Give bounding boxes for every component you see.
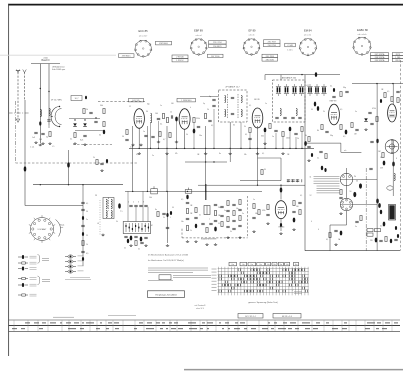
rotary switch contacts xyxy=(50,228,52,230)
matrix header boxes xyxy=(229,262,237,265)
svg-text:k: k xyxy=(190,107,191,109)
svg-text:C 348: C 348 xyxy=(287,45,293,47)
vertical x68 xyxy=(68,150,70,185)
table label box A xyxy=(238,314,263,319)
svg-text:30: 30 xyxy=(264,169,266,171)
parts table row 1 entries xyxy=(25,322,30,324)
page bottom scan edge xyxy=(184,369,403,371)
pentode V4 envelope xyxy=(329,104,340,125)
svg-text:T 5: T 5 xyxy=(120,211,122,213)
svg-text:gemess. Spannung (Siehe Text): gemess. Spannung (Siehe Text) xyxy=(248,301,278,304)
blob R40 xyxy=(118,203,121,208)
svg-text:30: 30 xyxy=(233,125,235,127)
svg-text:1nF: 1nF xyxy=(32,137,35,139)
tuner rail wire xyxy=(24,100,26,206)
svg-text:ZWI 8000: ZWI 8000 xyxy=(159,43,169,45)
svg-text:0,5: 0,5 xyxy=(340,109,342,111)
svg-text:2n: 2n xyxy=(152,155,154,157)
svg-text:Ua: Ua xyxy=(232,264,234,266)
svg-text:0,1: 0,1 xyxy=(86,203,88,205)
mechanical dotted link xyxy=(99,200,101,235)
power vertical wires xyxy=(376,84,378,251)
svg-text:1 24 C: 1 24 C xyxy=(287,49,293,51)
svg-text:296 8870: 296 8870 xyxy=(213,46,222,48)
IF filter coil Lb xyxy=(241,95,242,102)
power wires v xyxy=(346,186,348,199)
socket V1 pin label box left xyxy=(119,54,135,58)
x347 parts xyxy=(345,90,348,92)
rail coil L2b xyxy=(49,108,50,115)
parts table column ticks xyxy=(13,320,15,332)
svg-text:240Ω: 240Ω xyxy=(43,58,48,60)
svg-text:1n: 1n xyxy=(265,103,267,105)
cap C7 xyxy=(83,134,86,136)
matrix grid xyxy=(218,267,309,269)
tone parts col2 xyxy=(232,203,235,205)
cap C28 xyxy=(325,130,328,132)
svg-text:L: L xyxy=(170,217,171,219)
svg-text:50: 50 xyxy=(86,211,88,213)
pentode V3 envelope xyxy=(252,108,263,128)
tone parts col4 xyxy=(220,205,223,207)
svg-text:Ua: Ua xyxy=(286,264,288,266)
blob C26 xyxy=(314,102,316,107)
border frame top xyxy=(8,4,403,6)
svg-text:a b c d: a b c d xyxy=(196,35,202,37)
tuner wire h1 xyxy=(69,118,100,120)
svg-text:M: M xyxy=(151,225,153,227)
mains parts xyxy=(375,238,378,243)
far right top parts xyxy=(384,93,386,98)
legend row 1 xyxy=(18,256,22,258)
svg-text:ECC 85: ECC 85 xyxy=(132,100,140,102)
right col parts y166 xyxy=(321,166,323,170)
cap C10 on wire xyxy=(315,72,317,77)
legend row 5 xyxy=(18,284,22,286)
power parts 1 xyxy=(340,190,342,195)
blob C22 xyxy=(264,128,267,133)
V2 screen parts xyxy=(208,119,211,121)
svg-text:1M: 1M xyxy=(197,154,200,156)
svg-text:50: 50 xyxy=(172,207,174,209)
socket V2 pin label box lower xyxy=(208,54,224,57)
socket V2 pin label box left xyxy=(172,55,188,58)
bus right mid xyxy=(198,184,305,186)
resistor R25 xyxy=(321,125,323,130)
rail coil L2a xyxy=(40,109,41,116)
svg-text:2n: 2n xyxy=(242,213,244,215)
tuner wire h2 xyxy=(75,130,104,132)
svg-text:KLANGREGISTER: KLANGREGISTER xyxy=(201,238,217,241)
main bus y148 xyxy=(129,147,314,149)
svg-text:Ua: Ua xyxy=(273,264,275,266)
magic eye EM84 xyxy=(385,140,399,154)
svg-text:a b c d e: a b c d e xyxy=(304,35,311,37)
cap C15 xyxy=(197,125,200,127)
svg-text:0,1: 0,1 xyxy=(249,105,251,107)
svg-text:8k: 8k xyxy=(317,130,319,132)
resistor R2 xyxy=(103,109,105,114)
svg-text:0,1: 0,1 xyxy=(262,153,264,155)
svg-text:2k: 2k xyxy=(323,111,325,113)
power parts bottom xyxy=(334,229,337,231)
svg-text:EF 89: EF 89 xyxy=(254,99,260,101)
AM filter coil pair Ta xyxy=(277,87,279,92)
svg-text:6,3: 6,3 xyxy=(380,226,382,228)
svg-text:L 5: L 5 xyxy=(52,146,54,148)
svg-text:280 0581: 280 0581 xyxy=(266,59,275,61)
ratio detector diode D2 xyxy=(83,123,87,126)
res R16 xyxy=(159,132,161,137)
resistor R23 xyxy=(282,132,284,137)
svg-text:1k: 1k xyxy=(86,109,88,111)
svg-text:mit Tasten/4: mit Tasten/4 xyxy=(195,304,207,307)
AF coupling string xyxy=(186,195,188,199)
resistor R24 xyxy=(301,127,303,132)
svg-text:Ua: Ua xyxy=(295,264,297,266)
resistor R22 xyxy=(269,124,271,129)
svg-text:100: 100 xyxy=(296,206,299,208)
AGC bus segment xyxy=(185,161,227,163)
legend2 note xyxy=(65,278,91,280)
matrix value marks xyxy=(238,269,241,271)
wire heater right xyxy=(352,83,403,85)
svg-text:0,1: 0,1 xyxy=(317,158,319,160)
svg-text:220k: 220k xyxy=(196,118,200,120)
tube socket V5 (EABC 80) xyxy=(353,37,371,55)
svg-text:5n: 5n xyxy=(138,249,140,251)
band III feeder wire 1 xyxy=(39,64,41,143)
resistor R13 xyxy=(193,118,195,123)
resistor R11 xyxy=(162,114,164,119)
svg-text:0,1: 0,1 xyxy=(245,134,247,136)
svg-text:11: 11 xyxy=(310,177,312,179)
tone parts 2 xyxy=(201,222,204,224)
power box dashed right edge xyxy=(399,60,401,251)
cap C23 xyxy=(274,129,277,131)
tuner L wire to switch xyxy=(25,205,83,207)
resistor R21 xyxy=(249,128,251,133)
svg-text:4,7: 4,7 xyxy=(163,139,165,141)
svg-text:5n: 5n xyxy=(355,111,357,113)
AF string x215 xyxy=(214,203,217,205)
FM tuner dashed top edge xyxy=(98,101,145,103)
svg-text:ECC 85: ECC 85 xyxy=(138,29,148,33)
svg-text:T: T xyxy=(209,219,210,221)
ecap bank xyxy=(359,183,362,188)
wire heater top xyxy=(265,74,316,76)
table header squiggle xyxy=(53,316,74,318)
svg-text:a b c b: a b c b xyxy=(249,35,255,37)
leads to bus xyxy=(150,122,152,148)
table label box B xyxy=(273,314,301,319)
cap C11 xyxy=(157,117,160,119)
IF filter caps xyxy=(231,96,234,98)
svg-text:1M: 1M xyxy=(354,133,357,135)
blob C50 on V6 top wire xyxy=(280,188,283,193)
cap C30 xyxy=(355,128,358,130)
vertical 167 xyxy=(166,126,168,191)
legend row 3 xyxy=(18,268,22,270)
blob C32 xyxy=(383,161,386,166)
svg-text:Ua: Ua xyxy=(267,264,269,266)
keyboard leads up xyxy=(127,191,129,221)
svg-text:1n: 1n xyxy=(224,210,226,212)
svg-text:0,5: 0,5 xyxy=(86,253,88,255)
ground G9 xyxy=(264,142,266,143)
right mid parts xyxy=(355,220,358,222)
rotary switch SW1 body xyxy=(31,218,54,241)
bus AF main xyxy=(125,190,262,192)
coupling coil L5 xyxy=(151,113,152,123)
faint scan streak xyxy=(0,54,116,56)
cap C3 xyxy=(94,120,97,122)
svg-text:1n: 1n xyxy=(160,105,162,107)
IF filter coil La xyxy=(225,95,226,102)
volume pot P2 xyxy=(185,190,192,194)
IF in parts xyxy=(212,98,215,100)
keyboard contacts xyxy=(125,223,127,232)
svg-text:Ph: Ph xyxy=(354,176,356,178)
svg-text:EF 89: EF 89 xyxy=(249,28,256,32)
svg-text:EM 84: EM 84 xyxy=(304,29,312,33)
vertical v2 drop xyxy=(132,126,134,191)
legend bracket 1 xyxy=(38,255,40,264)
svg-text:100: 100 xyxy=(171,103,174,105)
svg-text:EABC 80: EABC 80 xyxy=(357,28,368,32)
svg-text:2k: 2k xyxy=(297,138,299,140)
svg-text:50p: 50p xyxy=(330,135,333,137)
tone parts col3 xyxy=(239,200,241,205)
fuse box 1 xyxy=(367,229,373,232)
svg-text:4: 4 xyxy=(311,221,312,223)
blob C27 xyxy=(317,106,319,111)
svg-text:10n: 10n xyxy=(199,135,202,137)
tuner label box xyxy=(71,96,82,101)
power blobs col xyxy=(376,199,379,204)
parts table top line xyxy=(9,319,400,321)
power box left edge xyxy=(304,75,306,251)
svg-text:0,5: 0,5 xyxy=(181,199,183,201)
svg-text:50: 50 xyxy=(218,223,220,225)
blob C14 xyxy=(193,129,196,134)
svg-text:ZF 10.7 MHz: ZF 10.7 MHz xyxy=(51,100,62,102)
svg-text:ohne W 4: ohne W 4 xyxy=(196,308,204,310)
svg-text:ECC 85 1 4: ECC 85 1 4 xyxy=(245,316,256,318)
legend2 row3 xyxy=(65,266,68,268)
svg-text:50: 50 xyxy=(350,191,352,193)
keyboard parts below xyxy=(124,235,127,237)
legend row 2 xyxy=(18,262,22,264)
svg-text:30: 30 xyxy=(146,111,148,113)
FM tuner dash-dot left edge xyxy=(15,101,17,163)
svg-text:a b: a b xyxy=(344,150,346,152)
parts table row 2 entries xyxy=(12,328,17,330)
svg-text:U SCHALT: U SCHALT xyxy=(38,228,48,231)
ratio detector diode D1 xyxy=(73,123,77,126)
svg-text:ZWI 844C: ZWI 844C xyxy=(122,56,132,58)
svg-text:0,1: 0,1 xyxy=(211,125,213,127)
wire 158 xyxy=(258,157,282,159)
dipole antenna A1 xyxy=(17,72,19,119)
svg-text:C2: C2 xyxy=(129,106,131,108)
FM tuner dashed bottom edge xyxy=(16,162,137,164)
svg-text:30k: 30k xyxy=(261,136,264,138)
vertical tube3 drop xyxy=(257,126,259,185)
svg-text:5k: 5k xyxy=(244,126,246,128)
tuner dash-dot stub xyxy=(9,112,30,114)
svg-text:1M: 1M xyxy=(378,151,381,153)
svg-text:1 DRM 640: 1 DRM 640 xyxy=(181,100,192,102)
bus 143 left stub xyxy=(305,142,314,144)
ratio det lower parts xyxy=(96,160,98,165)
IF filter core lines xyxy=(227,94,229,118)
svg-text:0,1: 0,1 xyxy=(330,86,332,88)
svg-text:1M: 1M xyxy=(381,89,384,91)
svg-text:25V: 25V xyxy=(380,167,384,169)
svg-text:Kab 240Ω sym: Kab 240Ω sym xyxy=(52,69,66,71)
tube socket V1 (ECC 85) xyxy=(135,40,151,56)
svg-text:1 PROC: 1 PROC xyxy=(176,60,184,62)
svg-text:50: 50 xyxy=(122,136,124,138)
svg-text:1k: 1k xyxy=(170,112,172,114)
border frame left xyxy=(8,4,10,356)
IF trafo T5 coils xyxy=(106,199,107,209)
band III feeder wire 2 xyxy=(48,64,50,125)
svg-text:Ua: Ua xyxy=(259,264,261,266)
tone transformer T6 xyxy=(204,206,210,215)
svg-text:UKW-Antenne: UKW-Antenne xyxy=(52,65,66,68)
ground G5 xyxy=(158,141,160,142)
bus jog right xyxy=(314,142,341,144)
V6 screen parts xyxy=(293,201,295,206)
svg-text:2M: 2M xyxy=(190,213,193,215)
svg-text:10k: 10k xyxy=(255,213,258,215)
svg-text:2k: 2k xyxy=(93,157,95,159)
bass parts xyxy=(127,239,129,243)
output tube V6 (EL 84) xyxy=(275,201,286,219)
cap C25 xyxy=(294,132,297,134)
det diode parts xyxy=(364,118,368,121)
tone dashed box xyxy=(182,237,248,239)
blob C33 xyxy=(392,162,395,167)
fuse box 3 xyxy=(367,233,373,236)
svg-text:AM BANDF 460: AM BANDF 460 xyxy=(282,76,297,79)
legend2 row4 xyxy=(65,271,68,273)
ground G8 xyxy=(140,144,142,145)
socket V5 pin label box group 2 xyxy=(392,53,403,56)
rotary arc bracket xyxy=(56,220,61,237)
svg-text:Ua: Ua xyxy=(280,264,282,266)
resistor R27 xyxy=(351,123,353,128)
cap C6 xyxy=(41,132,44,134)
svg-text:8n: 8n xyxy=(155,209,157,211)
svg-text:ZF: ZF xyxy=(95,195,97,197)
AM filter coil pair Tb xyxy=(285,87,287,92)
matrix row labels xyxy=(212,268,217,270)
svg-text:2n: 2n xyxy=(124,247,126,249)
svg-text:2k: 2k xyxy=(394,106,396,108)
parts table bottom line xyxy=(9,331,400,333)
string x83 parts xyxy=(81,201,84,203)
legend bracket 2 xyxy=(38,276,40,285)
switch contact S2 xyxy=(67,162,70,167)
triode V5 envelope xyxy=(388,104,397,122)
FM tuner dashed inner edge xyxy=(73,143,112,145)
svg-text:50: 50 xyxy=(356,181,358,183)
socket V2 pin label boxes right xyxy=(209,41,227,44)
cap C12 xyxy=(170,115,172,118)
junction dots tuner xyxy=(74,119,75,120)
V6 cathode string xyxy=(280,219,282,231)
box Empfaenger xyxy=(148,291,185,298)
svg-text:8k: 8k xyxy=(305,135,307,137)
svg-text:a b c d e f: a b c d e f xyxy=(139,35,148,37)
svg-text:100k: 100k xyxy=(286,138,290,140)
AM filter coil pair Td xyxy=(300,87,302,92)
cap C18 xyxy=(125,138,128,140)
svg-text:1M: 1M xyxy=(190,205,193,207)
socket V3 pin label boxes lower xyxy=(262,54,278,57)
resistor R12 xyxy=(166,118,168,123)
keyboard switch box xyxy=(123,222,150,234)
svg-text:0,1: 0,1 xyxy=(70,139,72,141)
blob C24 xyxy=(289,127,292,132)
cap C5 xyxy=(34,131,37,133)
svg-text:6: 6 xyxy=(138,201,139,203)
wire am drop xyxy=(280,75,282,80)
svg-text:0,5: 0,5 xyxy=(387,91,389,93)
parts table mid line xyxy=(9,325,400,327)
resistor R14 xyxy=(204,114,206,119)
blob C13 xyxy=(175,117,178,122)
note block small xyxy=(148,267,208,269)
svg-text:50k: 50k xyxy=(244,154,247,156)
svg-text:10,7: 10,7 xyxy=(75,98,80,100)
svg-text:L12: L12 xyxy=(306,85,309,87)
output transformer T7 xyxy=(389,205,396,221)
svg-text:EBF 89: EBF 89 xyxy=(330,101,338,103)
svg-text:470k: 470k xyxy=(372,108,376,110)
tone stack string xyxy=(195,208,197,213)
svg-text:288 3287A: 288 3287A xyxy=(375,56,385,59)
svg-text:220: 220 xyxy=(370,240,373,242)
vertical 147 xyxy=(146,126,148,191)
svg-text:Ua: Ua xyxy=(251,264,253,266)
wave switch contact S1 xyxy=(24,166,27,171)
tube socket V2 (EBF 89) xyxy=(191,39,207,55)
extra parts lower mid xyxy=(157,212,159,217)
AM bandfilter dashed box xyxy=(273,80,306,122)
legend2 row2 xyxy=(65,261,68,263)
legend row 6 xyxy=(18,294,22,296)
ground G6 xyxy=(176,141,178,142)
band III tie wire xyxy=(31,63,60,65)
junction caps row xyxy=(291,179,294,181)
power notes text xyxy=(314,176,340,178)
component string x83 xyxy=(82,196,84,266)
bus 148 grounds xyxy=(138,152,140,153)
svg-text:5k: 5k xyxy=(186,134,188,136)
svg-text:C 1-4: C 1-4 xyxy=(30,147,34,149)
res R4 xyxy=(74,133,76,138)
grounds main rails xyxy=(39,144,41,145)
svg-text:1n: 1n xyxy=(253,199,255,201)
V6 grid parts xyxy=(267,205,269,210)
res R3 xyxy=(49,132,51,137)
svg-text:Im Wechselstrom: Austausch 217: Im Wechselstrom: Austausch 217+2 (7,5W) xyxy=(148,253,188,256)
vertical 230 xyxy=(229,122,231,162)
